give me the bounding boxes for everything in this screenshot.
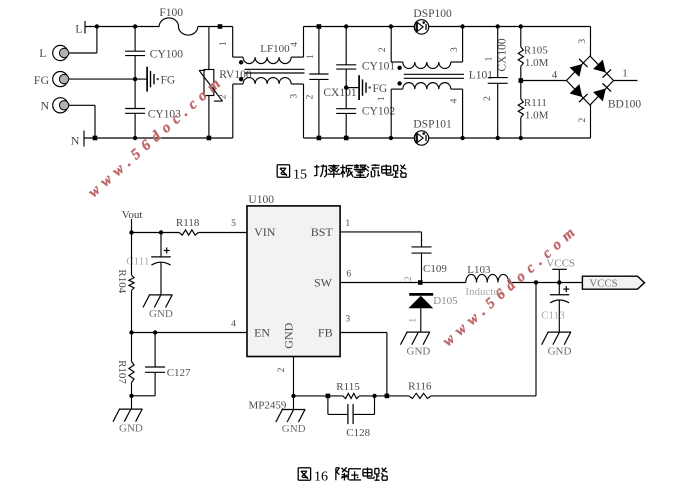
svg-text:EN: EN	[254, 325, 270, 339]
junction	[534, 280, 538, 284]
junction	[95, 24, 99, 28]
svg-text:GND: GND	[282, 423, 306, 435]
resistor R118	[179, 230, 198, 235]
svg-text:1.0M: 1.0M	[525, 57, 549, 69]
ground C111	[149, 294, 173, 296]
resistor R116	[409, 393, 431, 398]
diode BD100 upper-right	[593, 60, 606, 73]
capacitor C111 (electrolytic)	[160, 233, 162, 257]
junction	[418, 280, 423, 285]
junction	[133, 136, 137, 140]
wire GND pin	[293, 357, 295, 396]
junction	[389, 24, 393, 28]
svg-text:4: 4	[449, 98, 459, 103]
svg-text:R118: R118	[176, 217, 200, 229]
svg-text:CX100: CX100	[496, 38, 508, 71]
svg-text:GND: GND	[149, 308, 173, 320]
wire	[198, 26, 233, 28]
capacitor CY101	[345, 27, 347, 65]
wire N connector	[69, 104, 96, 106]
wire EN net	[129, 330, 133, 334]
diode BD100 lower-right	[593, 89, 606, 102]
svg-text:L101: L101	[469, 70, 494, 82]
svg-text:C128: C128	[346, 427, 370, 439]
svg-text:1: 1	[485, 56, 495, 61]
junction	[133, 24, 137, 28]
svg-text:2: 2	[277, 367, 287, 372]
svg-text:3: 3	[345, 315, 350, 325]
svg-text:1: 1	[306, 54, 316, 59]
chassis ground FG left	[135, 78, 147, 80]
wire FG connector	[69, 78, 136, 80]
svg-text:2: 2	[578, 117, 588, 122]
svg-text:2: 2	[403, 277, 413, 282]
diode BD100 lower-left	[570, 84, 583, 97]
svg-text:1: 1	[622, 68, 628, 80]
svg-text:C127: C127	[167, 367, 191, 379]
capacitor C113 (electrolytic)	[558, 283, 560, 295]
svg-text:C111: C111	[126, 256, 149, 268]
svg-text:L103: L103	[467, 264, 491, 276]
svg-text:SW: SW	[314, 275, 333, 289]
svg-text:GND: GND	[282, 322, 296, 348]
resistor R104	[131, 233, 133, 276]
node N	[83, 131, 85, 147]
caption figure 16	[298, 467, 310, 469]
svg-text:R116: R116	[408, 381, 432, 393]
svg-text:L: L	[75, 22, 82, 36]
svg-text:L: L	[39, 46, 46, 60]
wire feedback bottom net	[294, 395, 343, 397]
schottky diode D105	[409, 293, 433, 296]
svg-text:CY101: CY101	[362, 61, 395, 73]
svg-text:MP2459: MP2459	[249, 399, 287, 411]
svg-text:4: 4	[231, 319, 236, 329]
svg-text:2: 2	[483, 96, 493, 101]
svg-text:C113: C113	[541, 310, 565, 322]
svg-text:R104: R104	[116, 269, 128, 293]
junction / ground R107	[129, 394, 133, 398]
ground D105	[420, 319, 422, 332]
svg-text:LF100: LF100	[260, 43, 290, 55]
svg-text:BD100: BD100	[608, 99, 641, 111]
svg-text:CX101: CX101	[323, 87, 356, 99]
wire FB net	[340, 332, 387, 334]
svg-text:C109: C109	[423, 263, 447, 275]
capacitor CX101	[318, 27, 320, 75]
capacitor CX100	[497, 27, 499, 78]
svg-text:1: 1	[407, 318, 417, 323]
svg-text:1.0M: 1.0M	[525, 109, 549, 121]
wire bridge output	[614, 80, 638, 82]
resistor R111	[520, 81, 522, 100]
common-mode choke LF100	[232, 27, 234, 58]
svg-text:R115: R115	[336, 381, 360, 393]
svg-text:RV100: RV100	[219, 69, 252, 81]
svg-text:15: 15	[293, 167, 307, 182]
junction	[460, 24, 464, 28]
svg-text:3: 3	[578, 39, 588, 44]
wire VIN net	[129, 230, 133, 234]
common-mode choke L101	[390, 27, 392, 63]
chassis ground FG right	[344, 85, 348, 89]
svg-text:2: 2	[378, 47, 388, 52]
node L	[84, 21, 86, 34]
svg-text:1: 1	[345, 219, 350, 229]
svg-text:2: 2	[219, 94, 229, 99]
svg-text:FB: FB	[318, 325, 333, 339]
junction	[93, 136, 98, 141]
capacitor C109	[412, 246, 432, 248]
svg-text:U100: U100	[248, 194, 274, 206]
junction	[557, 280, 561, 284]
IC U100	[247, 206, 340, 357]
svg-text:6: 6	[346, 270, 351, 280]
wire L connector riser	[96, 27, 98, 54]
svg-text:FG: FG	[161, 74, 176, 86]
svg-text:R111: R111	[524, 97, 547, 109]
junction	[218, 24, 223, 29]
wire top rail left	[85, 26, 159, 28]
svg-text:2: 2	[306, 94, 316, 99]
svg-text:3: 3	[289, 94, 299, 99]
svg-text:VCCS: VCCS	[589, 278, 617, 290]
caption figure 15	[277, 164, 289, 166]
svg-text:VIN: VIN	[254, 225, 276, 239]
svg-text:FG: FG	[373, 83, 388, 95]
discharge tube DSP100	[414, 20, 428, 34]
wire bottom rail mid	[304, 137, 415, 139]
svg-text:3: 3	[450, 47, 460, 52]
capacitor C127	[154, 333, 156, 368]
svg-text:R105: R105	[524, 45, 548, 57]
bridge rectifier BD100	[590, 27, 592, 57]
capacitor CY102	[345, 88, 347, 109]
svg-text:R107: R107	[116, 360, 128, 384]
svg-text:1: 1	[377, 96, 387, 101]
svg-text:GND: GND	[548, 345, 572, 357]
port VCCS	[582, 276, 644, 289]
connector L	[53, 45, 68, 60]
svg-text:CY100: CY100	[150, 49, 183, 61]
wire BST net	[340, 231, 421, 233]
svg-text:BST: BST	[311, 225, 334, 239]
svg-text:CY102: CY102	[362, 105, 395, 117]
svg-text:N: N	[41, 99, 50, 113]
diode BD100 upper-left	[570, 64, 583, 77]
junction / ground MP2459	[291, 394, 295, 398]
wire to bridge pin4	[519, 78, 524, 83]
svg-text:1: 1	[219, 41, 229, 46]
svg-text:N: N	[71, 134, 80, 148]
svg-text:GND: GND	[407, 345, 431, 357]
svg-text:GND: GND	[119, 422, 143, 434]
svg-text:16: 16	[314, 470, 328, 485]
wire top rail mid	[304, 26, 415, 28]
svg-text:5: 5	[231, 219, 236, 229]
capacitor CY103	[134, 79, 136, 108]
fuse F100	[159, 18, 198, 35]
wire	[429, 137, 591, 139]
svg-text:D105: D105	[433, 295, 458, 307]
svg-text:FG: FG	[34, 73, 50, 87]
svg-text:DSP101: DSP101	[413, 119, 452, 131]
capacitor CY100	[134, 27, 136, 52]
svg-text:DSP100: DSP100	[413, 8, 452, 20]
svg-text:Vout: Vout	[122, 209, 143, 221]
connector N	[53, 98, 68, 113]
wire bottom rail left	[84, 137, 233, 139]
connector FG	[53, 72, 68, 87]
wire	[429, 26, 591, 28]
resistor R107	[131, 333, 133, 362]
svg-text:F100: F100	[159, 7, 183, 19]
capacitor C128	[327, 396, 329, 415]
resistor R105	[520, 27, 522, 47]
svg-text:4: 4	[290, 42, 300, 47]
resistor R115	[343, 393, 360, 398]
ground C113	[547, 331, 571, 333]
svg-text:4: 4	[552, 69, 558, 81]
discharge tube DSP101	[414, 131, 428, 145]
junction	[207, 136, 212, 141]
junction	[133, 77, 137, 81]
inductor L103	[466, 274, 509, 282]
varistor RV100	[208, 27, 210, 70]
wire SW net	[340, 282, 466, 284]
